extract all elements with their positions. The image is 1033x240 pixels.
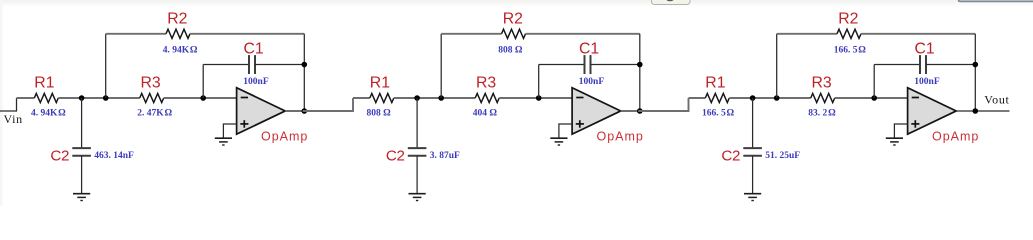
junction node: R2 feedback tap (stage 1) bbox=[103, 95, 109, 101]
svg-text:83. 2 Ω: 83. 2 Ω bbox=[808, 108, 836, 118]
pin marker: inverting input "-" (stage 3) bbox=[912, 97, 919, 99]
value label 166. 5 Ω (R1, stage 3) bbox=[702, 108, 735, 118]
resistor R3 (stage 1) bbox=[140, 93, 164, 102]
ground (op-amp + input, stage 3) bbox=[886, 138, 903, 145]
label R1 (stage 2) bbox=[370, 74, 390, 91]
label OpAmp (stage 2) bbox=[597, 130, 644, 144]
svg-text:2. 47K Ω: 2. 47K Ω bbox=[137, 108, 172, 118]
wire: Vin input stub bbox=[0, 98, 17, 111]
wire: C2 lower lead (stage 2) bbox=[416, 156, 418, 194]
value label 463. 14nF (C2, stage 1) bbox=[94, 151, 134, 161]
resistor R2 (stage 3) bbox=[837, 29, 861, 38]
toolbar button (partially visible, top-right) bbox=[652, 0, 691, 5]
svg-text:C1: C1 bbox=[914, 41, 934, 58]
wire: non-inverting input to ground (stage 2) bbox=[559, 124, 572, 138]
svg-text:OpAmp: OpAmp bbox=[932, 130, 979, 144]
wire: R3 to op-amp inverting input (stage 3) bbox=[835, 97, 908, 99]
svg-text:404 Ω: 404 Ω bbox=[473, 108, 498, 118]
wire: op-amp output (stage 2) bbox=[621, 110, 689, 112]
svg-text:C1: C1 bbox=[579, 41, 599, 58]
svg-text:R3: R3 bbox=[811, 74, 831, 91]
svg-text:100nF: 100nF bbox=[579, 77, 605, 87]
value label 83. 2 Ω (R3, stage 3) bbox=[808, 108, 836, 118]
capacitor C1 (stage 1) bbox=[249, 55, 255, 74]
junction node: C1/feedback column (stage 2) bbox=[637, 62, 643, 68]
junction node: C1 tap (stage 1) bbox=[200, 95, 206, 101]
canvas left edge strip bbox=[0, 0, 3, 206]
value label 808 Ω (R1, stage 2) bbox=[367, 108, 392, 118]
resistor R2 (stage 1) bbox=[166, 29, 190, 38]
wire: rail from step to R1 (stage 2) bbox=[353, 97, 370, 99]
label OpAmp (stage 1) bbox=[261, 130, 308, 144]
ground (C2, stage 3) bbox=[744, 194, 761, 201]
svg-text:R2: R2 bbox=[167, 11, 187, 28]
svg-text:OpAmp: OpAmp bbox=[261, 130, 308, 144]
svg-text:100nF: 100nF bbox=[243, 77, 269, 87]
wire: R3 to op-amp inverting input (stage 2) bbox=[499, 97, 572, 99]
pin marker: non-inverting input "+" (stage 2) bbox=[576, 120, 584, 128]
value label 4. 94K Ω (R1, stage 1) bbox=[31, 108, 66, 118]
pin marker: inverting input "-" (stage 1) bbox=[241, 97, 248, 99]
wire: rail from step to R1 (stage 3) bbox=[689, 97, 706, 99]
value label 51. 25uF (C2, stage 3) bbox=[765, 151, 800, 161]
svg-text:463. 14nF: 463. 14nF bbox=[94, 151, 134, 161]
svg-text:C2: C2 bbox=[721, 148, 740, 165]
value label 404 Ω (R3, stage 2) bbox=[473, 108, 498, 118]
svg-text:808 Ω: 808 Ω bbox=[498, 46, 523, 56]
junction node: C1/feedback column (stage 1) bbox=[302, 62, 308, 68]
svg-text:51. 25uF: 51. 25uF bbox=[765, 151, 800, 161]
value label 2. 47K Ω (R3, stage 1) bbox=[137, 108, 172, 118]
resistor R2 (stage 2) bbox=[502, 29, 526, 38]
capacitor C2 (stage 3) bbox=[743, 148, 762, 156]
op-amp U2 (stage 2) bbox=[572, 88, 621, 135]
wire: feedback right column (stage 1) bbox=[303, 34, 305, 111]
wire: R2 top row left (stage 3) bbox=[777, 33, 837, 35]
junction node: R2 feedback tap (stage 2) bbox=[438, 95, 444, 101]
junction node: C1 tap (stage 3) bbox=[871, 95, 877, 101]
ground (op-amp + input, stage 2) bbox=[550, 138, 567, 145]
svg-text:100nF: 100nF bbox=[914, 77, 940, 87]
label R1 (stage 3) bbox=[705, 74, 725, 91]
pin marker: inverting input "-" (stage 2) bbox=[576, 97, 583, 99]
wire: op-amp output to Vout (stage 3) bbox=[956, 110, 1009, 112]
port label Vin bbox=[4, 112, 23, 126]
op-amp U1 (stage 1) bbox=[237, 88, 286, 135]
wire: R3 to op-amp inverting input (stage 1) bbox=[164, 97, 237, 99]
label R3 (stage 2) bbox=[476, 74, 496, 91]
svg-text:R3: R3 bbox=[140, 74, 160, 91]
svg-text:808 Ω: 808 Ω bbox=[367, 108, 392, 118]
wire: C1 left riser (stage 3) bbox=[873, 65, 875, 99]
svg-text:C1: C1 bbox=[243, 41, 263, 58]
wire: C1 row left lead (stage 3) bbox=[874, 64, 920, 66]
label R3 (stage 1) bbox=[140, 74, 160, 91]
label C1 (stage 3) bbox=[914, 41, 934, 58]
junction node: summing node, C2 tap (stage 2) bbox=[414, 95, 420, 101]
pin marker: non-inverting input "+" (stage 1) bbox=[240, 120, 248, 128]
capacitor C2 (stage 1) bbox=[72, 148, 91, 156]
resistor R3 (stage 2) bbox=[475, 93, 499, 102]
label R3 (stage 3) bbox=[811, 74, 831, 91]
label C1 (stage 2) bbox=[579, 41, 599, 58]
svg-text:R2: R2 bbox=[838, 11, 858, 28]
ground (op-amp + input, stage 1) bbox=[215, 138, 232, 145]
wire: C1 row right lead (stage 2) bbox=[591, 64, 640, 66]
wire: R2 top row left (stage 1) bbox=[106, 33, 166, 35]
op-amp U3 (stage 3) bbox=[908, 88, 957, 135]
wire: stage 2 input step from previous op-amp output bbox=[303, 98, 353, 111]
label R1 (stage 1) bbox=[34, 74, 54, 91]
label R2 (stage 3) bbox=[838, 11, 858, 28]
svg-text:C2: C2 bbox=[50, 148, 69, 165]
wire: C1 row left lead (stage 2) bbox=[539, 64, 585, 66]
wire: R2 left riser (stage 1) bbox=[105, 34, 107, 98]
wire: C1 row right lead (stage 3) bbox=[926, 64, 975, 66]
wire: C2 upper lead (stage 1) bbox=[81, 98, 83, 148]
junction node: summing node, C2 tap (stage 3) bbox=[750, 95, 756, 101]
svg-text:C2: C2 bbox=[386, 148, 405, 165]
resistor R3 (stage 3) bbox=[811, 93, 835, 102]
capacitor C1 (stage 3) bbox=[920, 55, 926, 74]
svg-text:4. 94K Ω: 4. 94K Ω bbox=[31, 108, 66, 118]
junction node: output / feedback (stage 1) bbox=[302, 108, 308, 114]
capacitor C1 (stage 2) bbox=[585, 55, 591, 74]
junction node: R2 feedback tap (stage 3) bbox=[774, 95, 780, 101]
ground (C2, stage 1) bbox=[73, 194, 90, 201]
wire: R2 top row right (stage 3) bbox=[861, 33, 975, 35]
resistor R1 (stage 1) bbox=[34, 93, 58, 102]
label C2 (stage 1) bbox=[50, 148, 69, 165]
label R2 (stage 1) bbox=[167, 11, 187, 28]
label C1 (stage 1) bbox=[243, 41, 263, 58]
value label 100nF (C1, stage 1) bbox=[243, 77, 269, 87]
svg-text:4. 94K Ω: 4. 94K Ω bbox=[163, 46, 198, 56]
svg-text:R1: R1 bbox=[370, 74, 390, 91]
svg-text:R3: R3 bbox=[476, 74, 496, 91]
ground (C2, stage 2) bbox=[409, 194, 426, 201]
wire: C1 left riser (stage 2) bbox=[538, 65, 540, 99]
resistor R1 (stage 2) bbox=[370, 93, 394, 102]
wire: C1 row right lead (stage 1) bbox=[255, 64, 304, 66]
svg-text:R1: R1 bbox=[34, 74, 54, 91]
value label 100nF (C1, stage 3) bbox=[914, 77, 940, 87]
wire: non-inverting input to ground (stage 3) bbox=[894, 124, 907, 138]
junction node: C1 tap (stage 2) bbox=[536, 95, 542, 101]
port label Vout bbox=[984, 92, 1009, 106]
label OpAmp (stage 3) bbox=[932, 130, 979, 144]
wire: C2 lower lead (stage 1) bbox=[81, 156, 83, 194]
junction node: summing node, C2 tap (stage 1) bbox=[79, 95, 85, 101]
wire: non-inverting input to ground (stage 1) bbox=[223, 124, 236, 138]
wire: feedback right column (stage 3) bbox=[974, 34, 976, 111]
junction node: output / feedback (stage 2) bbox=[637, 108, 643, 114]
wire: rail from step to R1 (stage 1) bbox=[17, 97, 35, 99]
value label 808 Ω (R2, stage 2) bbox=[498, 46, 523, 56]
wire: R1 to R3 along rail (stage 3) bbox=[729, 97, 810, 99]
panel corner outline (top-right chrome) bbox=[959, 0, 1033, 1]
svg-text:R2: R2 bbox=[503, 11, 523, 28]
wire: R1 to R3 along rail (stage 2) bbox=[394, 97, 475, 99]
wire: op-amp output (stage 1) bbox=[285, 110, 353, 112]
label R2 (stage 2) bbox=[503, 11, 523, 28]
wire: R2 left riser (stage 2) bbox=[440, 34, 442, 98]
value label 100nF (C1, stage 2) bbox=[579, 77, 605, 87]
junction node: output / feedback (stage 3) bbox=[973, 108, 979, 114]
wire: C2 upper lead (stage 3) bbox=[752, 98, 754, 148]
svg-text:Vout: Vout bbox=[984, 92, 1009, 106]
resistor R1 (stage 3) bbox=[705, 93, 729, 102]
wire: feedback right column (stage 2) bbox=[639, 34, 641, 111]
wire: R2 top row left (stage 2) bbox=[441, 33, 501, 35]
value label 4. 94K Ω (R2, stage 1) bbox=[163, 46, 198, 56]
label C2 (stage 2) bbox=[386, 148, 405, 165]
value label 166. 5 Ω (R2, stage 3) bbox=[834, 46, 867, 56]
svg-text:166. 5 Ω: 166. 5 Ω bbox=[834, 46, 867, 56]
value label 3. 87uF (C2, stage 2) bbox=[430, 151, 460, 161]
svg-text:166. 5 Ω: 166. 5 Ω bbox=[702, 108, 735, 118]
label C2 (stage 3) bbox=[721, 148, 740, 165]
junction node: C1/feedback column (stage 3) bbox=[973, 62, 979, 68]
wire: stage 3 input step from previous op-amp output bbox=[638, 98, 688, 111]
capacitor C2 (stage 2) bbox=[408, 148, 427, 156]
wire: R2 left riser (stage 3) bbox=[776, 34, 778, 98]
svg-text:OpAmp: OpAmp bbox=[597, 130, 644, 144]
svg-text:3. 87uF: 3. 87uF bbox=[430, 151, 460, 161]
svg-text:Vin: Vin bbox=[4, 112, 23, 126]
wire: C1 left riser (stage 1) bbox=[202, 65, 204, 99]
wire: R1 to R3 along rail (stage 1) bbox=[58, 97, 139, 99]
wire: R2 top row right (stage 1) bbox=[190, 33, 304, 35]
wire: C1 row left lead (stage 1) bbox=[203, 64, 249, 66]
pin marker: non-inverting input "+" (stage 3) bbox=[911, 120, 919, 128]
wire: R2 top row right (stage 2) bbox=[526, 33, 640, 35]
wire: C2 lower lead (stage 3) bbox=[752, 156, 754, 194]
svg-text:R1: R1 bbox=[705, 74, 725, 91]
toolbar shadow strip (top chrome) bbox=[0, 0, 1033, 6]
wire: C2 upper lead (stage 2) bbox=[416, 98, 418, 148]
